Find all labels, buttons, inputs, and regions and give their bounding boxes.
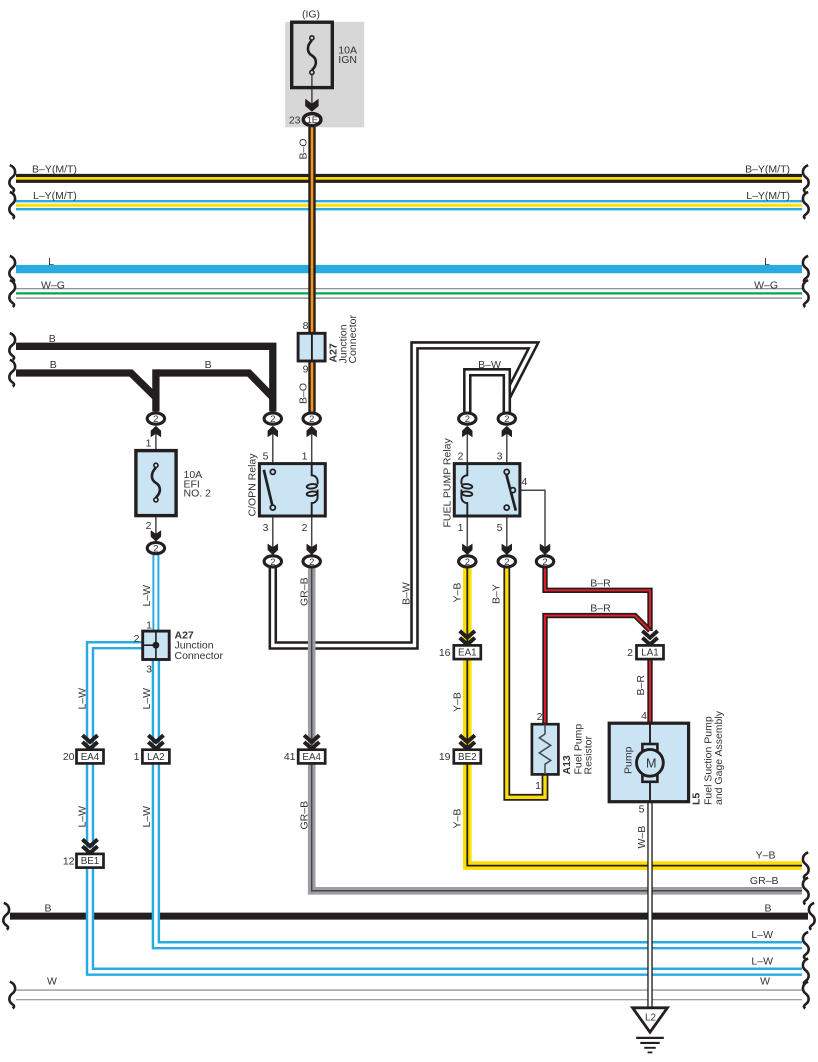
wire B lower second segment (fuse column to relay column) xyxy=(156,373,273,398)
bus W bottom horizontal xyxy=(16,990,802,1001)
chevron arrow into 1 LA2 xyxy=(148,735,163,749)
svg-text:2: 2 xyxy=(458,451,464,463)
svg-text:B: B xyxy=(205,359,212,371)
svg-text:C/OPN Relay: C/OPN Relay xyxy=(247,453,259,517)
connector oval 2 below FUEL PUMP pin4 xyxy=(536,556,553,567)
connector box 1 LA2 xyxy=(142,750,169,764)
svg-text:B–R: B–R xyxy=(635,675,647,696)
connector box 20 EA4 xyxy=(77,750,104,764)
arrow down into oval below FUEL PUMP pin5 xyxy=(502,544,512,555)
wire B-R from relay pin4 connector down-right to 2 LA1 xyxy=(545,561,650,631)
svg-text:B: B xyxy=(49,333,56,345)
arrow down into oval below C/OPN pin3 xyxy=(268,544,278,555)
svg-text:9: 9 xyxy=(303,364,309,376)
connector oval 2 below C/OPN pin2 xyxy=(303,556,320,567)
chevron arrow into 2 LA1 xyxy=(642,631,657,645)
svg-text:A13: A13 xyxy=(561,755,573,774)
svg-text:EA4: EA4 xyxy=(302,752,321,763)
arrow down into oval below C/OPN pin2 xyxy=(307,544,317,555)
resistor A13 box xyxy=(532,724,559,774)
svg-text:3: 3 xyxy=(263,522,269,534)
svg-text:B: B xyxy=(764,903,771,915)
relay FUEL PUMP switch with pin4 contact xyxy=(504,469,516,510)
thin pin wire C/OPN pin2 xyxy=(311,515,313,552)
svg-text:EA1: EA1 xyxy=(458,648,477,659)
break squiggle left W xyxy=(9,982,15,1009)
svg-text:L–W: L–W xyxy=(141,688,153,710)
break squiggle left W-G xyxy=(9,280,15,307)
svg-text:GR–B: GR–B xyxy=(750,875,779,887)
svg-text:FUEL PUMP Relay: FUEL PUMP Relay xyxy=(442,437,454,527)
wire GR-B (C/OPN pin2 down through 41 EA4 to right bus) xyxy=(312,561,802,891)
break squiggle left L xyxy=(9,256,15,283)
svg-text:Y–B: Y–B xyxy=(452,583,464,603)
svg-text:1: 1 xyxy=(134,751,140,763)
svg-text:W–G: W–G xyxy=(754,280,778,292)
svg-text:L–W: L–W xyxy=(77,806,89,828)
break squiggle left B upper xyxy=(9,333,15,360)
break squiggle right W xyxy=(803,982,809,1009)
svg-text:B–Y(M/T): B–Y(M/T) xyxy=(745,164,790,176)
connector oval 2 above EFI fuse xyxy=(147,413,164,424)
connector box 2 LA1 xyxy=(637,645,664,659)
wire L-W from A27 pin3 down through 1 LA2 to lower-right bus xyxy=(156,659,802,945)
break squiggle right Y-B xyxy=(803,852,809,879)
svg-text:B: B xyxy=(44,903,51,915)
break squiggle left L-Y xyxy=(9,192,15,219)
svg-text:L: L xyxy=(764,256,770,268)
arrow up into oval above FUEL PUMP pin3 xyxy=(502,426,512,437)
thin pin wire FUEL PUMP pin2 xyxy=(466,429,468,464)
break squiggle right L xyxy=(803,256,809,283)
svg-text:B–R: B–R xyxy=(590,578,611,590)
svg-text:Pump: Pump xyxy=(623,746,635,774)
connector oval 2 below EFI fuse xyxy=(147,543,164,554)
svg-text:1: 1 xyxy=(458,522,464,534)
bus L-Y(M/T) horizontal xyxy=(16,200,802,210)
connector box 12 BE1 xyxy=(77,854,104,868)
chevron arrow into 20 EA4 xyxy=(82,735,97,749)
svg-text:L–W: L–W xyxy=(77,688,89,710)
thin pin wire FUEL PUMP pin5 xyxy=(506,515,508,552)
arrow up into oval above C/OPN pin5 xyxy=(268,426,278,437)
relay C/OPN switch xyxy=(264,469,276,510)
svg-text:1: 1 xyxy=(146,620,152,632)
fuse 10A EFI NO.2 body xyxy=(136,451,176,516)
svg-text:5: 5 xyxy=(263,451,269,463)
thin pin wire C/OPN pin3 xyxy=(272,515,274,552)
arrow up into oval above EFI fuse xyxy=(151,426,161,437)
svg-text:L2: L2 xyxy=(645,1013,656,1024)
svg-text:2: 2 xyxy=(627,647,633,659)
junction connector A27 upper box xyxy=(298,333,325,361)
svg-text:Y–B: Y–B xyxy=(452,809,464,829)
arrow up into oval above C/OPN pin1 xyxy=(307,426,317,437)
svg-text:8: 8 xyxy=(303,320,309,332)
svg-text:L–W: L–W xyxy=(141,806,153,828)
svg-text:B–W: B–W xyxy=(400,582,412,605)
svg-text:M: M xyxy=(646,756,657,770)
svg-text:23: 23 xyxy=(289,114,301,126)
chevron arrow into 16 EA1 xyxy=(460,631,475,645)
chevron arrow into 41 EA4 xyxy=(304,735,319,749)
wire Y-B (FUEL PUMP relay pin1 down through 16 EA1 / 19 BE2 to right bus) xyxy=(467,561,802,866)
relay FUEL PUMP box xyxy=(454,464,520,516)
svg-text:12: 12 xyxy=(63,855,75,867)
svg-text:Y–B: Y–B xyxy=(452,692,464,712)
svg-text:B–W: B–W xyxy=(478,359,501,371)
motor M symbol xyxy=(637,744,664,782)
wire B lower (left bus to EFI fuse column) xyxy=(16,373,156,398)
connector 1E oval xyxy=(303,114,321,126)
svg-text:B–O: B–O xyxy=(297,138,309,159)
svg-text:W–G: W–G xyxy=(41,280,65,292)
svg-text:1: 1 xyxy=(535,780,541,792)
pump L5 box xyxy=(609,723,688,802)
svg-text:5: 5 xyxy=(639,804,645,816)
thin pin wire fuse EFI pin2 xyxy=(155,515,157,536)
svg-text:L–W: L–W xyxy=(141,585,153,607)
svg-text:W: W xyxy=(760,976,770,988)
svg-text:Connector: Connector xyxy=(347,315,359,364)
svg-text:Y–B: Y–B xyxy=(756,850,776,862)
wire B-W U bridge over FUEL PUMP relay pins 2 and 3 xyxy=(467,372,507,412)
svg-text:5: 5 xyxy=(497,522,503,534)
svg-text:2: 2 xyxy=(134,633,140,645)
wire B-Y (FUEL PUMP relay pin5 down and over to resistor pin 1) xyxy=(507,561,545,797)
arrow into 1E xyxy=(305,99,318,112)
svg-text:BE1: BE1 xyxy=(81,856,100,867)
svg-text:L–Y(M/T): L–Y(M/T) xyxy=(746,190,790,202)
arrow up into oval above FUEL PUMP pin2 xyxy=(462,426,472,437)
svg-text:20: 20 xyxy=(63,751,75,763)
connector oval 2 below C/OPN pin3 xyxy=(264,556,281,567)
connector oval 2 above FUEL PUMP pin2 xyxy=(459,413,476,424)
svg-text:1E: 1E xyxy=(307,114,318,125)
chevron arrow into 12 BE1 xyxy=(82,839,97,853)
wire B vertical into EFI fuse connector xyxy=(152,369,159,411)
svg-text:41: 41 xyxy=(284,751,296,763)
break squiggle left B-Y xyxy=(9,165,15,192)
svg-text:B–O: B–O xyxy=(298,383,310,404)
svg-text:NO. 2: NO. 2 xyxy=(184,488,212,500)
svg-text:B: B xyxy=(50,359,57,371)
svg-text:B–R: B–R xyxy=(590,603,611,615)
svg-text:LA1: LA1 xyxy=(641,648,658,659)
wire B-R from 2 LA1 down to pump pin 4 xyxy=(647,659,652,723)
svg-text:L: L xyxy=(48,256,54,268)
svg-text:B–Y: B–Y xyxy=(490,584,502,604)
wire L-W from A27 pin2 left, down through 20 EA4 and 12 BE1 to bottom bus xyxy=(90,645,802,972)
fuse 10A EFI NO.2 element xyxy=(152,463,160,502)
svg-text:GR–B: GR–B xyxy=(298,801,310,830)
svg-text:LA2: LA2 xyxy=(147,752,164,763)
svg-text:L–W: L–W xyxy=(751,956,773,968)
connector box 41 EA4 xyxy=(298,750,325,764)
wire B-O from 1E down through A27 junction to C/OPN relay pin 1 xyxy=(308,127,315,412)
bus B-Y(M/T) horizontal xyxy=(16,174,802,183)
break squiggle right GR-B xyxy=(803,878,809,905)
break squiggle right L-W upper xyxy=(803,932,809,959)
svg-text:L5: L5 xyxy=(691,793,703,805)
svg-text:2: 2 xyxy=(146,520,152,532)
wire B-R from resistor A13 pin2 up and right to 2 LA1 xyxy=(545,616,650,724)
chevron arrow into 19 BE2 xyxy=(460,735,475,749)
connector oval 2 above FUEL PUMP pin3 xyxy=(498,413,515,424)
bus B bottom horizontal xyxy=(10,913,808,920)
junction connector A27 lower box xyxy=(143,631,170,659)
svg-text:BE2: BE2 xyxy=(458,752,477,763)
svg-text:W–B: W–B xyxy=(636,826,648,849)
svg-text:IGN: IGN xyxy=(338,54,357,66)
svg-text:1: 1 xyxy=(302,451,308,463)
svg-text:and Gage Assembly: and Gage Assembly xyxy=(713,710,725,805)
connector oval 2 above C/OPN pin5 xyxy=(264,413,281,424)
fuse 10A IGN body xyxy=(292,22,333,87)
svg-text:GR–B: GR–B xyxy=(298,577,310,606)
arrow down into oval below EFI fuse xyxy=(151,530,161,541)
svg-text:16: 16 xyxy=(439,647,451,659)
svg-text:3: 3 xyxy=(146,664,152,676)
svg-text:2: 2 xyxy=(302,522,308,534)
connector oval 2 below FUEL PUMP pin1 xyxy=(459,556,476,567)
svg-text:(IG): (IG) xyxy=(302,8,320,20)
break squiggle right L-W lower xyxy=(803,959,809,986)
svg-text:B–Y(M/T): B–Y(M/T) xyxy=(32,164,77,176)
thin pin wire FUEL PUMP pin3 xyxy=(506,429,508,464)
break squiggle right L-Y xyxy=(803,192,809,219)
svg-text:4: 4 xyxy=(522,476,528,488)
wire L-W from EFI fuse bottom connector to A27 junction connector xyxy=(152,555,159,631)
fuse IG grey background xyxy=(285,22,364,128)
relay C/OPN coil xyxy=(306,464,317,517)
wire B-W main loop (C/OPN pin3 down, right, up and over to FUEL PUMP relay pin 3) xyxy=(273,345,534,645)
thin pin wire FUEL PUMP pin1 xyxy=(466,515,468,552)
svg-text:EA4: EA4 xyxy=(81,752,100,763)
svg-text:1: 1 xyxy=(146,438,152,450)
svg-text:Resistor: Resistor xyxy=(583,735,595,774)
svg-text:W: W xyxy=(47,976,57,988)
wire W-B from pump pin 5 down to ground L2 xyxy=(647,802,652,1008)
svg-text:19: 19 xyxy=(439,751,451,763)
svg-text:L–W: L–W xyxy=(751,929,773,941)
svg-text:2: 2 xyxy=(537,711,543,723)
relay C/OPN box xyxy=(259,464,325,516)
thin pin wire C/OPN pin1 xyxy=(311,429,313,464)
connector box 16 EA1 xyxy=(454,645,481,659)
ground L2 symbol xyxy=(633,1008,668,1053)
svg-text:4: 4 xyxy=(641,710,647,722)
connector box 19 BE2 xyxy=(454,750,481,764)
connector oval 2 below FUEL PUMP pin5 xyxy=(498,556,515,567)
svg-text:L–Y(M/T): L–Y(M/T) xyxy=(33,190,77,202)
fuse 10A IGN element xyxy=(308,36,316,75)
connector oval 2 above C/OPN pin1 xyxy=(303,413,320,424)
pump inner wires xyxy=(649,723,651,802)
arrow down into oval below FUEL PUMP pin4 xyxy=(540,544,550,555)
arrow down into oval below FUEL PUMP pin1 xyxy=(462,544,472,555)
relay FUEL PUMP coil xyxy=(461,464,472,517)
thin pin wire C/OPN pin5 xyxy=(272,429,274,464)
break squiggle right W-G xyxy=(803,280,809,307)
thin pin wire FUEL PUMP pin4 to connector xyxy=(515,490,546,552)
break squiggle right B xyxy=(809,903,815,930)
wire B upper (left bus to C/OPN relay pin 5 column) xyxy=(16,346,273,411)
bus W-G horizontal xyxy=(16,288,802,298)
break squiggle right B-Y xyxy=(803,165,809,192)
break squiggle left B bottom xyxy=(3,903,9,930)
svg-text:Connector: Connector xyxy=(175,650,224,662)
svg-text:3: 3 xyxy=(497,451,503,463)
thin pin wire fuse IG to 1E xyxy=(311,75,313,106)
bus L horizontal xyxy=(16,265,802,273)
break squiggle left B lower xyxy=(9,360,15,387)
thin pin wire fuse EFI pin1 xyxy=(155,429,157,451)
